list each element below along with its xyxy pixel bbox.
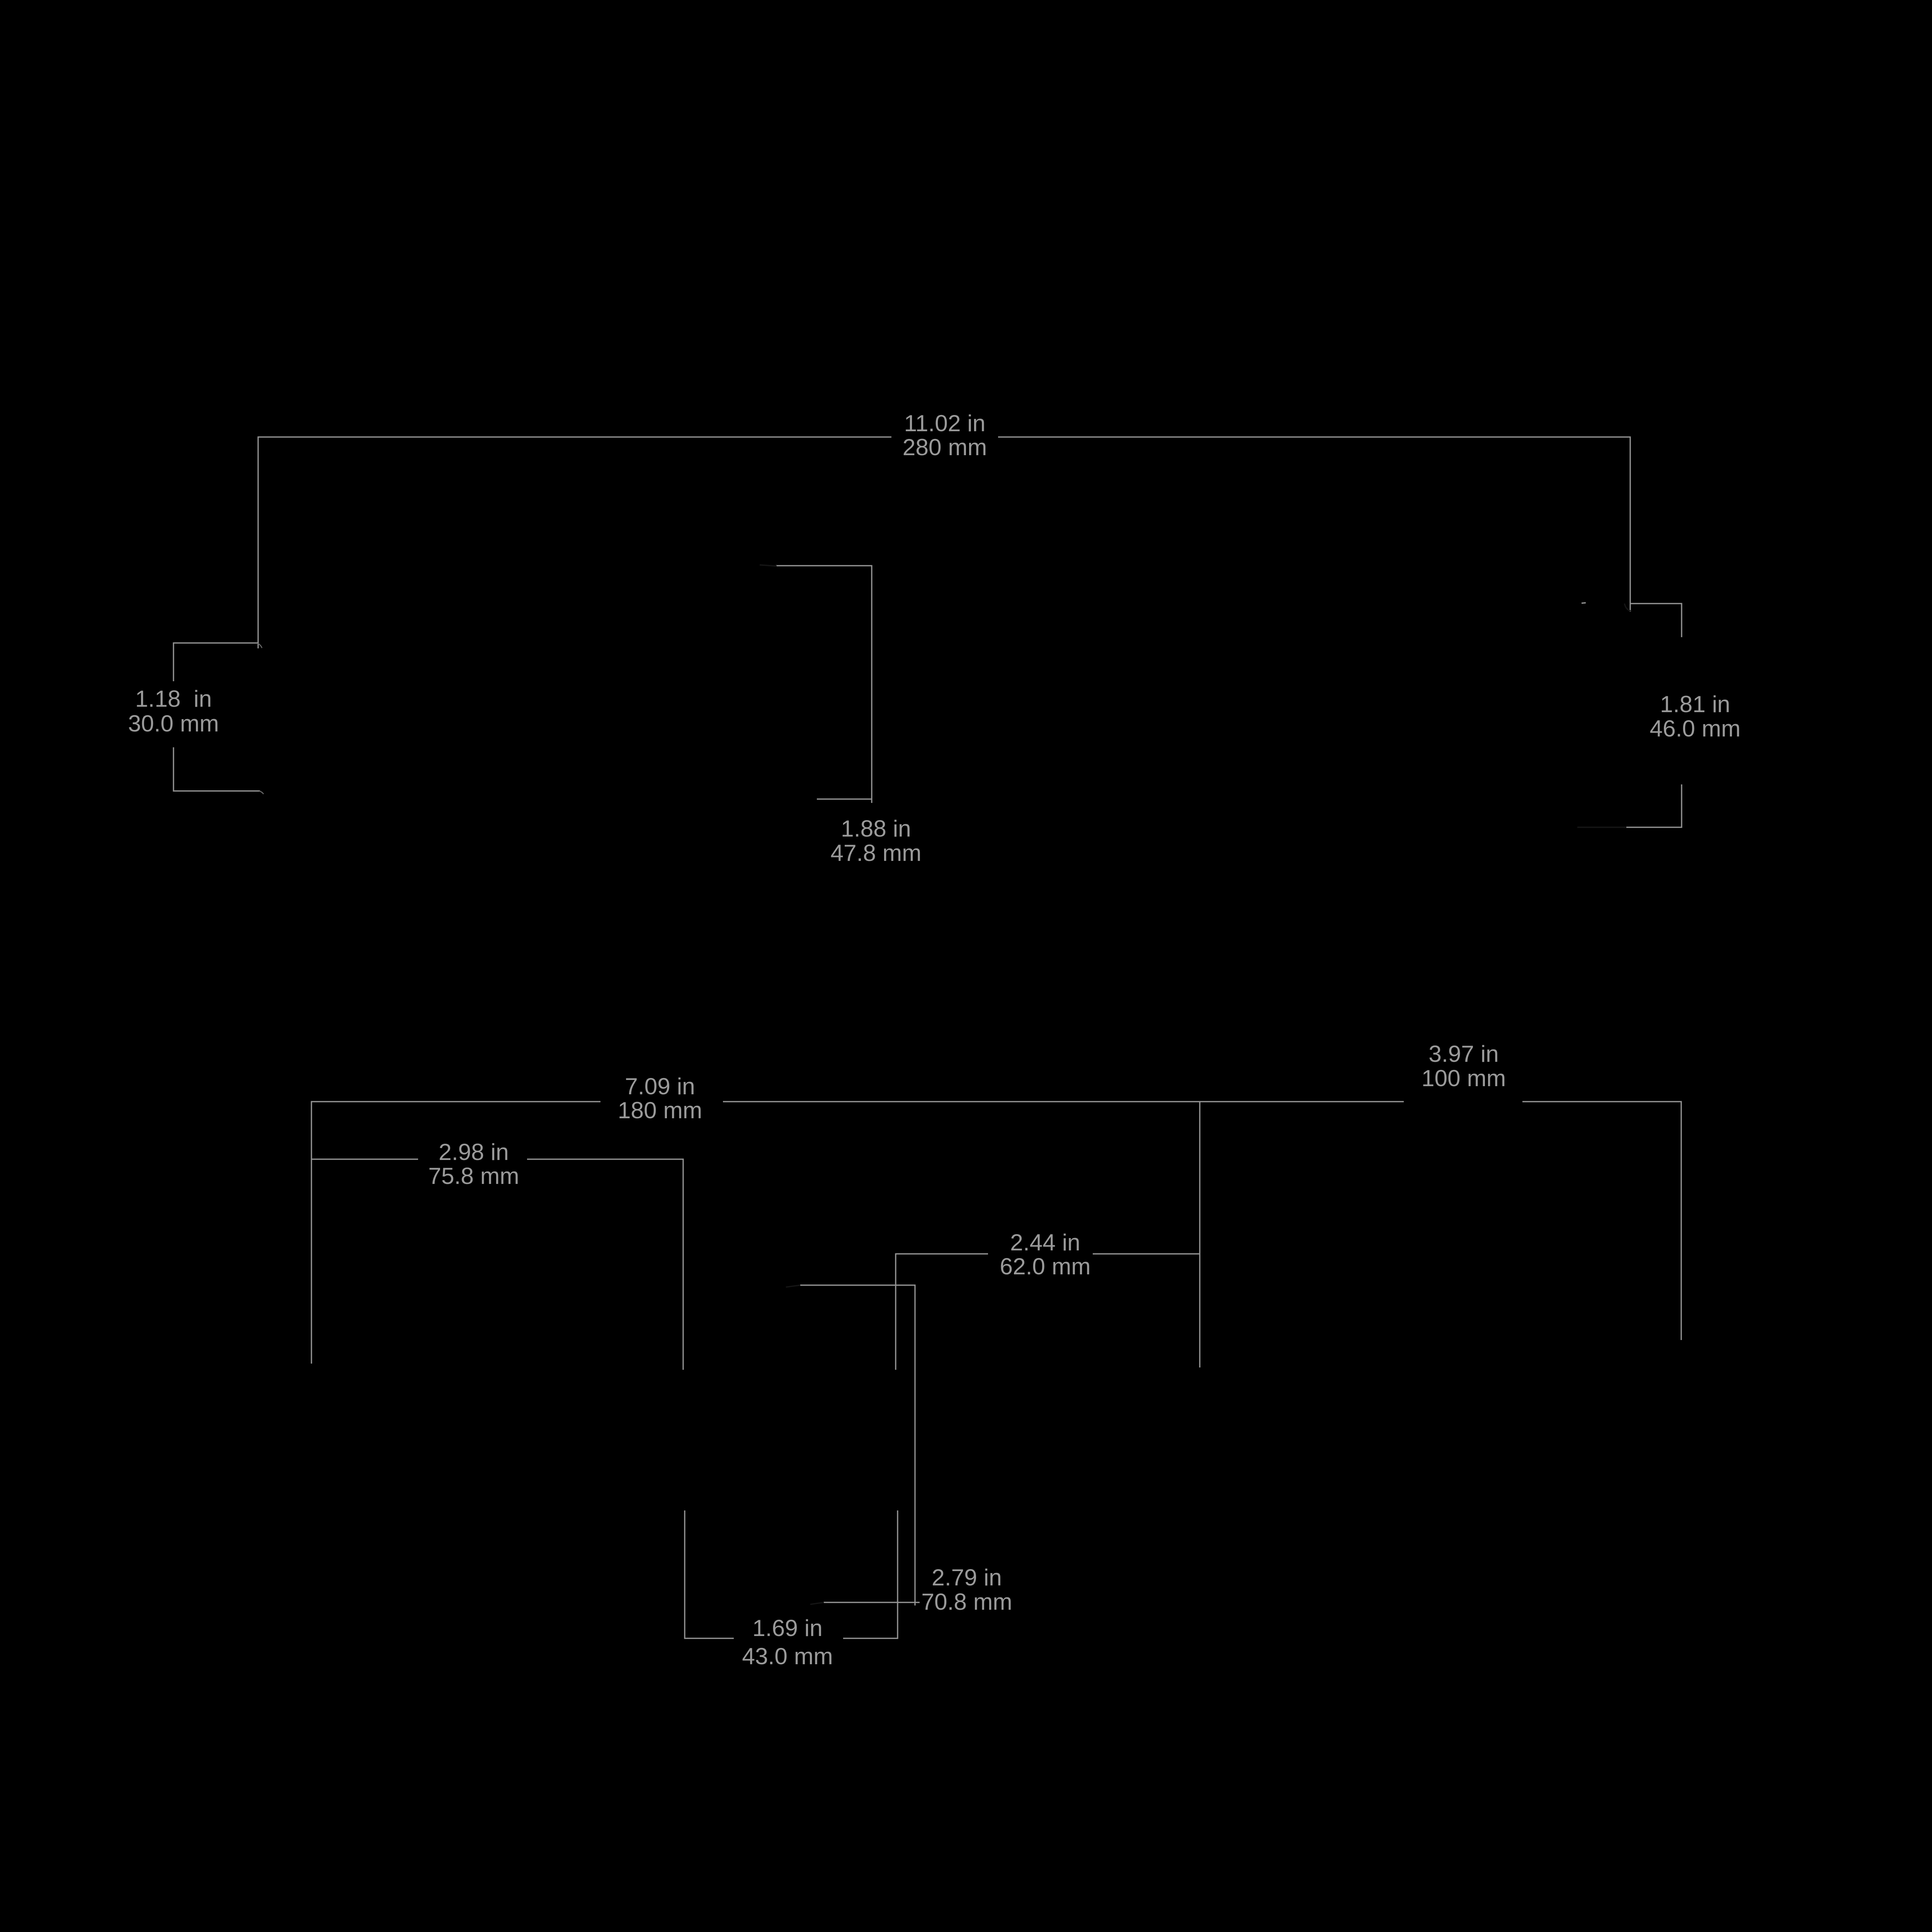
svg-text:47.8 mm: 47.8 mm: [830, 840, 921, 866]
svg-text:70.8 mm: 70.8 mm: [921, 1588, 1012, 1615]
svg-text:2.44 in: 2.44 in: [1010, 1229, 1080, 1255]
svg-text:43.0 mm: 43.0 mm: [742, 1643, 833, 1669]
svg-text:3.97 in: 3.97 in: [1429, 1041, 1499, 1067]
svg-text:180 mm: 180 mm: [618, 1097, 702, 1123]
svg-text:30.0 mm: 30.0 mm: [128, 710, 219, 736]
svg-text:7.09 in: 7.09 in: [625, 1073, 695, 1099]
svg-text:1.81 in: 1.81 in: [1660, 691, 1730, 717]
svg-text:1.88 in: 1.88 in: [841, 815, 911, 842]
svg-text:75.8 mm: 75.8 mm: [428, 1163, 519, 1189]
svg-text:62.0 mm: 62.0 mm: [1000, 1253, 1090, 1279]
svg-text:46.0 mm: 46.0 mm: [1650, 715, 1740, 742]
svg-text:2.79 in: 2.79 in: [932, 1564, 1002, 1590]
svg-text:280 mm: 280 mm: [903, 434, 987, 460]
svg-text:1.18 in: 1.18 in: [135, 685, 212, 712]
svg-text:11.02 in: 11.02 in: [904, 410, 986, 436]
svg-text:1.69 in: 1.69 in: [752, 1615, 823, 1641]
svg-text:2.98 in: 2.98 in: [439, 1139, 509, 1165]
svg-text:100 mm: 100 mm: [1422, 1065, 1506, 1091]
